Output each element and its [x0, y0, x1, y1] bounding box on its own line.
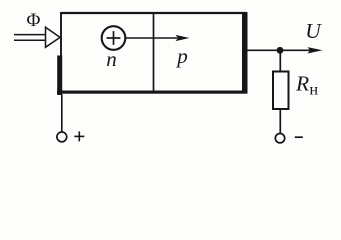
plus terminal circle	[57, 132, 67, 142]
hole symbol (circle with plus)	[102, 26, 126, 50]
semiconductor box outline	[61, 12, 247, 92]
flux hollow arrow	[14, 27, 60, 47]
junction node dot	[277, 47, 284, 54]
right electrode bar	[242, 12, 248, 94]
load resistor R_n body	[273, 72, 289, 110]
plus sign	[74, 131, 84, 141]
svg-text:U: U	[305, 19, 322, 43]
wire box to plus terminal	[61, 95, 63, 133]
svg-text:R: R	[295, 72, 309, 96]
svg-text:Φ: Φ	[27, 10, 41, 31]
p-n junction divider	[153, 13, 155, 91]
left electrode bar	[57, 56, 62, 96]
bottom electrode (thick bottom edge)	[57, 91, 248, 94]
svg-text:н: н	[310, 82, 319, 99]
minus terminal circle	[275, 134, 284, 143]
hole drift arrow	[126, 35, 190, 41]
output wire to U	[247, 49, 310, 51]
svg-text:p: p	[175, 44, 188, 68]
minus sign	[295, 136, 303, 138]
wire junction to resistor	[279, 50, 281, 71]
wire resistor to minus terminal	[279, 109, 281, 134]
svg-text:n: n	[106, 47, 117, 71]
U output arrowhead	[308, 47, 323, 53]
